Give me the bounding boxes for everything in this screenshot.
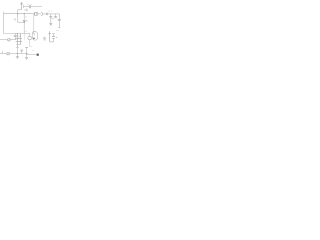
- transistor Q1 emitter dot: [33, 38, 35, 40]
- transformer T1 winding left: [16, 33, 18, 46]
- capacitor C10 stem up: [53, 34, 55, 37]
- capacitor C5 plates: [45, 13, 48, 15]
- transistor Q1 top edge: [33, 31, 36, 33]
- plus polarity mark C10: [56, 37, 57, 38]
- node junction dot C: [17, 53, 18, 54]
- wire below bus x26.6: [26, 54, 28, 58]
- label tick right of C13: [25, 16, 26, 18]
- label dashes top right: [56, 29, 59, 31]
- wire vertical x24 upper: [23, 14, 25, 21]
- transformer T1 top winding tick: [16, 35, 21, 37]
- node junction dot F: [17, 33, 18, 34]
- ground G3: [16, 57, 19, 59]
- capacitor C1 top plate: [20, 3, 23, 5]
- bus wire right segment: [27, 54, 37, 56]
- output terminal blob: [37, 54, 39, 56]
- source V2 arrow: [35, 13, 37, 15]
- wire main horizontal y13.7: [4, 13, 34, 15]
- wire horizontal y33.4 left: [4, 32, 25, 34]
- wire below C8: [58, 20, 60, 27]
- bus wire bottom mid: [10, 53, 27, 55]
- node junction dot E: [24, 13, 25, 14]
- label dots above wire: [48, 10, 52, 12]
- transformer T1 winding right: [19, 33, 21, 44]
- capacitor C2 plates: [29, 5, 32, 8]
- tick crossing R1: [48, 33, 51, 35]
- source V1 circle: [8, 38, 11, 41]
- capacitor C10 plates: [52, 37, 55, 39]
- ground tick G2: [58, 27, 60, 29]
- capacitor C6 plates: [49, 17, 52, 18]
- wire vertical x33.8 down: [33, 14, 35, 32]
- wire y39.7 mid: [10, 39, 16, 41]
- transistor Q1 body outline: [33, 32, 38, 40]
- capacitor C11 plate above bus: [20, 50, 23, 52]
- wire top-left horizontal y10: [18, 9, 22, 11]
- source V2 circle in chain: [35, 12, 38, 15]
- capacitor plate before source circle: [34, 12, 36, 16]
- capacitor C8 plates: [58, 19, 61, 20]
- wire vertical x59.3: [58, 14, 60, 19]
- wire y6.6 left segment: [24, 6, 29, 8]
- wire vertical x24 lower: [23, 21, 25, 33]
- transformer T1 core bar upper: [16, 37, 22, 39]
- faint vertical right of ladder: [23, 33, 25, 39]
- wire vertical from y10 to node: [17, 10, 19, 14]
- wire below C6: [50, 18, 52, 24]
- ground G1: [49, 23, 52, 25]
- wire vertical into Q2: [29, 33, 31, 36]
- wire bottom joining R1 and C10: [50, 41, 54, 43]
- wire vertical x17 mid: [16, 14, 18, 23]
- wire chain segment 2: [43, 13, 46, 15]
- transformer T1 core bar lower: [16, 40, 22, 42]
- source V1 arrow: [8, 39, 10, 41]
- capacitor C10 top tick: [52, 33, 55, 35]
- label dash near Q2 top: [25, 31, 27, 33]
- label text marks top: [27, 3, 29, 5]
- wire y6.6 long right segment: [31, 6, 42, 8]
- resistor R1 vertical: [49, 31, 51, 42]
- capacitor C6 drop left: [50, 14, 52, 17]
- bus wire bottom y53.6: [0, 53, 7, 55]
- wire horizontal y39.7 left: [0, 39, 7, 41]
- capacitor C7 plates: [54, 17, 57, 18]
- transistor Q2 circle: [28, 36, 32, 40]
- transformer T1 bottom tick: [16, 43, 21, 45]
- source V3 circle: [7, 52, 10, 55]
- capacitor C12 stem: [26, 47, 28, 53]
- capacitor C1 vertical body: [21, 4, 23, 10]
- capacitor C13 plates: [23, 20, 26, 21]
- transistor Q1 left edge: [32, 32, 34, 35]
- plus polarity mark C13: [26, 20, 27, 21]
- capacitor plate at wire start: [23, 5, 25, 8]
- label marks mid plus: [29, 45, 32, 46]
- wire transformer to bus: [16, 47, 18, 54]
- wire horizontal y33.3: [24, 32, 29, 34]
- label marks left x14: [14, 18, 16, 20]
- source V3 arrow: [7, 53, 9, 55]
- capacitor C12 top tick: [25, 46, 28, 48]
- node junction dot B: [24, 22, 25, 23]
- capacitor C11 second plate: [21, 49, 23, 51]
- capacitor C11 stem: [21, 51, 23, 54]
- wire horizontal y22: [17, 21, 24, 23]
- label marks near output: [33, 49, 35, 51]
- capacitor C9 stems: [44, 36, 46, 38]
- wire left vertical riser: [3, 12, 5, 34]
- wire chain segment: [38, 13, 41, 15]
- plus label mark: [52, 18, 53, 19]
- wire y10 right stub: [24, 9, 27, 11]
- node junction dot A: [17, 13, 18, 14]
- tick on x17 wire: [16, 47, 19, 49]
- ground G4: [25, 58, 28, 60]
- capacitor C7 drop: [55, 14, 57, 17]
- wire stub above C1: [21, 3, 23, 4]
- node junction dot D: [26, 53, 27, 54]
- tick above bus left: [1, 51, 3, 54]
- wire below Q2: [29, 40, 31, 45]
- node dot above C1: [21, 2, 22, 3]
- capacitor C4 stems: [14, 33, 16, 35]
- capacitor C10 stem down: [53, 38, 55, 42]
- capacitor C4 plates: [14, 35, 17, 36]
- capacitor C9 plates: [43, 38, 46, 40]
- capacitor C3 plate: [26, 9, 28, 12]
- wire chain segment 3: [48, 13, 60, 15]
- diode D1 arc: [41, 12, 42, 16]
- transistor Q1 inner tick: [34, 33, 36, 35]
- wire below bus x17: [16, 54, 18, 57]
